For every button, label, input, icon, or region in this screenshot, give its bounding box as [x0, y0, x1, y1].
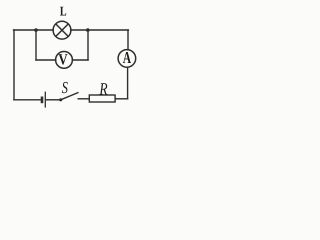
ammeter A — [118, 50, 136, 68]
wire bottom-left (corner to battery) — [14, 99, 41, 101]
node junction right — [86, 28, 90, 32]
wire voltmeter branch right vertical — [87, 30, 89, 60]
wire right vertical lower (corner to ammeter) — [127, 67, 129, 99]
wire battery to switch — [46, 99, 60, 101]
switch S — [59, 93, 78, 102]
wire voltmeter branch left horizontal — [36, 59, 56, 61]
battery cell — [42, 92, 45, 108]
switch lever — [61, 93, 78, 100]
label R — [99, 83, 107, 94]
battery short thick plate (negative) — [41, 97, 44, 104]
lamp L — [53, 21, 71, 39]
voltmeter V — [56, 52, 73, 69]
wire top-right horizontal — [71, 29, 129, 31]
wire voltmeter branch left vertical — [35, 30, 37, 60]
node junction left — [34, 28, 38, 32]
wire voltmeter branch right horizontal — [72, 59, 88, 61]
wire right vertical upper (top corner to ammeter) — [127, 30, 129, 50]
label S — [62, 82, 68, 93]
resistor R — [89, 95, 115, 102]
battery long thin plate (positive) — [44, 92, 46, 108]
switch contact dot — [59, 98, 62, 101]
wire switch to resistor — [78, 98, 89, 100]
label L — [60, 7, 66, 16]
wire top-left horizontal — [14, 29, 54, 31]
wire left vertical — [13, 30, 15, 100]
wire resistor to bottom-right corner — [115, 98, 127, 100]
